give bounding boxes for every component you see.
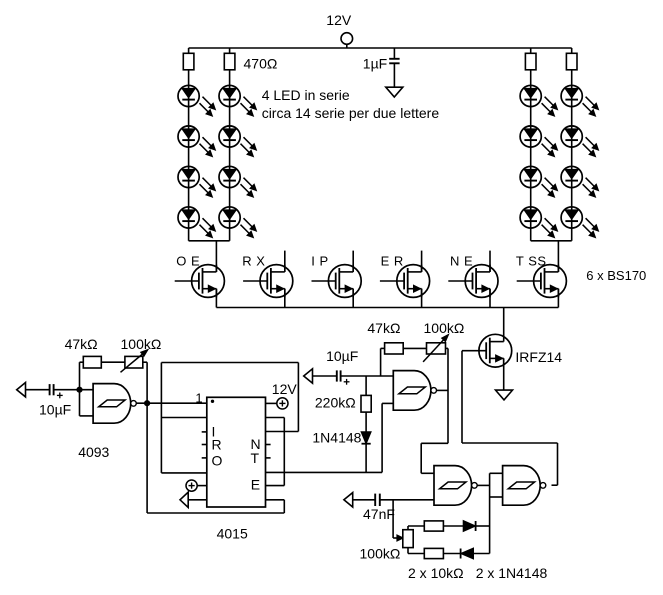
svg-text:47kΩ: 47kΩ	[65, 336, 98, 352]
svg-text:1µF: 1µF	[363, 56, 387, 72]
svg-text:T SS: T SS	[516, 254, 547, 269]
svg-text:R X: R X	[242, 254, 265, 269]
svg-text:12V: 12V	[272, 381, 298, 397]
svg-text:2 x 1N4148: 2 x 1N4148	[476, 565, 548, 581]
svg-text:E R: E R	[381, 254, 404, 269]
svg-text:O E: O E	[176, 254, 200, 269]
svg-text:4015: 4015	[217, 525, 248, 541]
svg-text:N E: N E	[450, 254, 473, 269]
svg-text:220kΩ: 220kΩ	[315, 395, 356, 411]
svg-text:IRFZ14: IRFZ14	[515, 349, 562, 365]
svg-text:100kΩ: 100kΩ	[424, 320, 465, 336]
svg-text:10µF: 10µF	[326, 348, 358, 364]
svg-text:100kΩ: 100kΩ	[121, 336, 162, 352]
svg-text:10µF: 10µF	[39, 402, 71, 418]
svg-text:R: R	[212, 436, 222, 452]
svg-text:470Ω: 470Ω	[244, 55, 278, 71]
svg-text:47nF: 47nF	[363, 506, 395, 522]
svg-text:4 LED in serie: 4 LED in serie	[262, 87, 350, 103]
svg-text:2 x 10kΩ: 2 x 10kΩ	[408, 565, 464, 581]
svg-text:100kΩ: 100kΩ	[360, 546, 401, 562]
svg-text:I P: I P	[311, 254, 328, 269]
svg-text:1N4148: 1N4148	[312, 430, 361, 446]
svg-text:6 x BS170: 6 x BS170	[586, 268, 646, 283]
svg-text:circa 14 serie per due lettere: circa 14 serie per due lettere	[262, 105, 440, 121]
svg-text:T: T	[251, 450, 260, 466]
svg-text:O: O	[212, 453, 223, 469]
svg-text:4093: 4093	[78, 444, 109, 460]
svg-text:47kΩ: 47kΩ	[367, 320, 400, 336]
svg-text:E: E	[251, 477, 260, 493]
svg-text:1: 1	[195, 391, 202, 406]
svg-text:12V: 12V	[326, 12, 352, 28]
